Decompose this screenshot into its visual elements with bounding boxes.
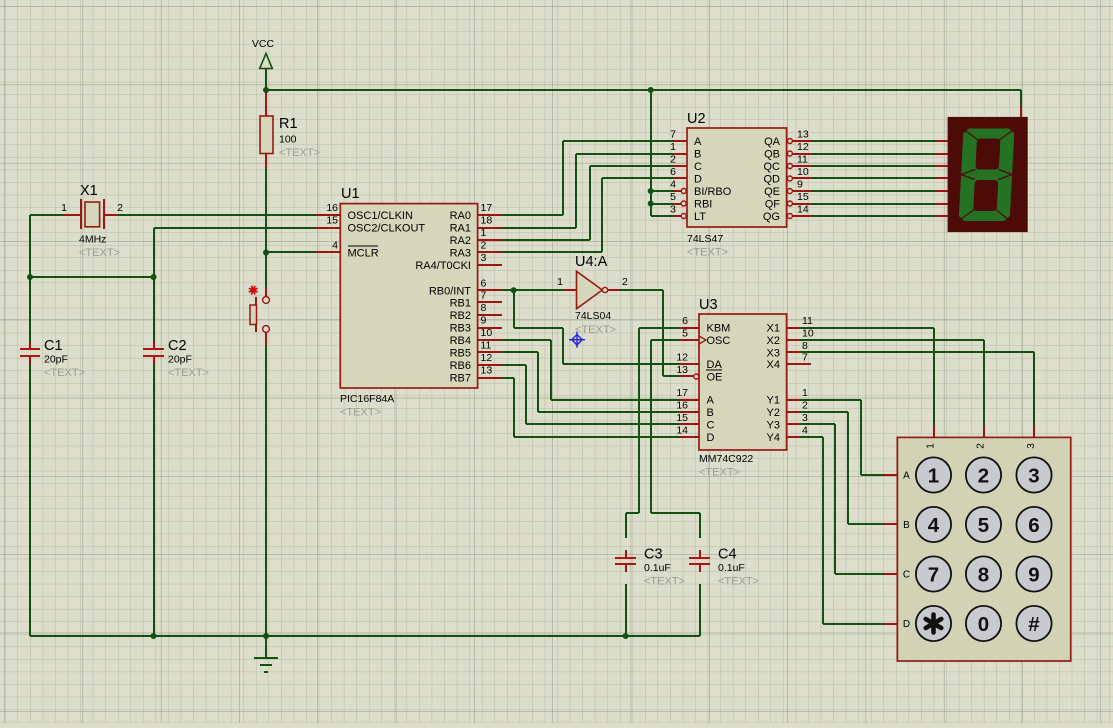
svg-text:5: 5: [670, 191, 676, 203]
svg-text:15: 15: [326, 215, 338, 227]
svg-text:6: 6: [670, 166, 676, 178]
svg-text:RB0/INT: RB0/INT: [429, 285, 471, 297]
svg-text:3: 3: [481, 252, 487, 264]
svg-text:1: 1: [802, 387, 808, 399]
svg-text:11: 11: [481, 340, 492, 352]
svg-text:18: 18: [481, 215, 493, 227]
svg-text:RBI: RBI: [694, 199, 712, 211]
svg-text:1: 1: [481, 227, 487, 239]
svg-text:7: 7: [802, 352, 808, 364]
svg-text:RB1: RB1: [450, 298, 471, 310]
svg-text:Y2: Y2: [767, 407, 780, 419]
svg-text:U3: U3: [699, 297, 718, 313]
svg-text:OSC2/CLKOUT: OSC2/CLKOUT: [348, 223, 426, 235]
svg-text:C1: C1: [44, 338, 63, 354]
svg-text:1: 1: [61, 202, 67, 214]
svg-text:2: 2: [802, 400, 808, 412]
svg-text:RA3: RA3: [450, 248, 471, 260]
svg-text:12: 12: [676, 352, 688, 364]
svg-text:QA: QA: [764, 136, 781, 148]
svg-text:<TEXT>: <TEXT>: [44, 367, 85, 379]
svg-text:C3: C3: [644, 547, 663, 563]
svg-text:8: 8: [802, 340, 808, 352]
svg-text:OSC: OSC: [707, 335, 731, 347]
svg-text:9: 9: [797, 179, 803, 191]
svg-text:3: 3: [802, 412, 808, 424]
svg-text:<TEXT>: <TEXT>: [687, 247, 728, 259]
svg-text:7: 7: [670, 129, 676, 141]
svg-text:2: 2: [481, 240, 487, 252]
svg-text:R1: R1: [279, 116, 298, 132]
svg-text:#: #: [1028, 613, 1040, 636]
svg-text:2: 2: [978, 465, 989, 488]
svg-text:20pF: 20pF: [44, 354, 68, 366]
svg-text:13: 13: [797, 129, 809, 141]
svg-text:A: A: [707, 395, 715, 407]
svg-text:<TEXT>: <TEXT>: [79, 247, 120, 259]
svg-text:OSC1/CLKIN: OSC1/CLKIN: [348, 210, 413, 222]
svg-text:RB5: RB5: [450, 348, 471, 360]
svg-text:4: 4: [928, 514, 940, 537]
svg-text:<TEXT>: <TEXT>: [699, 467, 740, 479]
svg-text:MM74C922: MM74C922: [699, 453, 753, 465]
svg-text:B: B: [903, 520, 910, 531]
svg-text:0.1uF: 0.1uF: [644, 562, 671, 574]
svg-text:14: 14: [676, 425, 688, 437]
svg-text:12: 12: [481, 352, 493, 364]
svg-text:DA: DA: [707, 359, 723, 371]
svg-text:10: 10: [802, 328, 814, 340]
svg-text:B: B: [694, 149, 701, 161]
svg-text:1: 1: [928, 465, 939, 488]
svg-text:7: 7: [481, 290, 487, 302]
svg-text:3: 3: [1028, 465, 1039, 488]
svg-text:LT: LT: [694, 211, 706, 223]
svg-text:C2: C2: [168, 338, 187, 354]
svg-text:11: 11: [797, 154, 808, 166]
svg-text:9: 9: [481, 315, 487, 327]
svg-text:X2: X2: [767, 335, 780, 347]
svg-text:<TEXT>: <TEXT>: [718, 576, 759, 588]
svg-text:RB6: RB6: [450, 360, 471, 372]
svg-text:4MHz: 4MHz: [79, 234, 106, 246]
svg-text:4: 4: [802, 425, 808, 437]
svg-text:20pF: 20pF: [168, 354, 192, 366]
svg-text:A: A: [694, 136, 702, 148]
svg-text:D: D: [694, 174, 702, 186]
svg-text:QB: QB: [764, 149, 780, 161]
svg-text:QD: QD: [764, 174, 781, 186]
svg-text:5: 5: [682, 328, 688, 340]
svg-text:6: 6: [682, 315, 688, 327]
svg-text:6: 6: [481, 277, 487, 289]
svg-text:X3: X3: [767, 348, 780, 360]
svg-text:D: D: [707, 432, 715, 444]
svg-text:74LS04: 74LS04: [575, 310, 611, 322]
svg-text:1: 1: [557, 276, 563, 288]
svg-text:10: 10: [481, 327, 493, 339]
svg-text:QG: QG: [763, 211, 780, 223]
svg-text:13: 13: [676, 364, 688, 376]
svg-text:U1: U1: [341, 186, 360, 202]
svg-text:C: C: [707, 420, 715, 432]
svg-text:QC: QC: [764, 161, 781, 173]
svg-text:C4: C4: [718, 547, 737, 563]
svg-text:X1: X1: [767, 323, 780, 335]
svg-text:X1: X1: [80, 183, 98, 199]
svg-text:X4: X4: [767, 359, 780, 371]
svg-text:PIC16F84A: PIC16F84A: [340, 393, 394, 405]
svg-text:9: 9: [1028, 564, 1039, 587]
svg-text:QF: QF: [765, 199, 781, 211]
svg-text:15: 15: [797, 191, 809, 203]
svg-text:<TEXT>: <TEXT>: [644, 576, 685, 588]
svg-text:4: 4: [332, 240, 338, 252]
svg-text:<TEXT>: <TEXT>: [168, 367, 209, 379]
svg-text:15: 15: [676, 412, 688, 424]
svg-text:RA4/T0CKI: RA4/T0CKI: [415, 260, 471, 272]
svg-text:2: 2: [670, 154, 676, 166]
svg-text:4: 4: [670, 179, 676, 191]
svg-text:1: 1: [670, 141, 676, 153]
svg-text:BI/RBO: BI/RBO: [694, 186, 732, 198]
svg-text:OE: OE: [707, 372, 723, 384]
svg-text:14: 14: [797, 204, 809, 216]
svg-text:RB7: RB7: [450, 373, 471, 385]
svg-text:16: 16: [676, 400, 688, 412]
svg-text:QE: QE: [764, 186, 780, 198]
svg-text:<TEXT>: <TEXT>: [575, 324, 616, 336]
svg-text:6: 6: [1028, 514, 1039, 537]
svg-text:17: 17: [481, 202, 493, 214]
svg-text:RB2: RB2: [450, 310, 471, 322]
svg-text:10: 10: [797, 166, 809, 178]
svg-text:MCLR: MCLR: [348, 248, 379, 260]
svg-text:Y1: Y1: [767, 395, 780, 407]
svg-text:U4:A: U4:A: [575, 254, 608, 270]
svg-text:D: D: [903, 619, 910, 630]
svg-text:2: 2: [622, 276, 628, 288]
svg-text:B: B: [707, 407, 714, 419]
svg-text:U2: U2: [687, 111, 706, 127]
svg-text:0: 0: [978, 613, 989, 636]
svg-text:A: A: [903, 471, 910, 482]
svg-text:0.1uF: 0.1uF: [718, 562, 745, 574]
svg-text:5: 5: [978, 514, 989, 537]
svg-text:<TEXT>: <TEXT>: [279, 147, 320, 159]
svg-text:7: 7: [928, 564, 939, 587]
svg-text:RA1: RA1: [450, 223, 471, 235]
svg-text:1: 1: [926, 443, 937, 449]
svg-text:8: 8: [978, 564, 989, 587]
svg-text:VCC: VCC: [252, 38, 275, 50]
svg-text:RA0: RA0: [450, 210, 471, 222]
svg-text:RB4: RB4: [450, 335, 471, 347]
svg-text:12: 12: [797, 141, 809, 153]
svg-text:3: 3: [1026, 443, 1037, 449]
svg-text:2: 2: [976, 443, 987, 449]
svg-text:RA2: RA2: [450, 235, 471, 247]
svg-text:2: 2: [117, 202, 123, 214]
svg-text:C: C: [903, 570, 910, 581]
svg-text:17: 17: [676, 387, 688, 399]
svg-text:KBM: KBM: [707, 323, 731, 335]
svg-text:Y4: Y4: [767, 432, 780, 444]
svg-text:C: C: [694, 161, 702, 173]
svg-text:100: 100: [279, 134, 297, 146]
svg-text:11: 11: [802, 315, 813, 327]
svg-text:74LS47: 74LS47: [687, 233, 723, 245]
svg-text:<TEXT>: <TEXT>: [340, 407, 381, 419]
svg-text:8: 8: [481, 302, 487, 314]
svg-text:16: 16: [326, 202, 338, 214]
svg-text:3: 3: [670, 204, 676, 216]
svg-text:13: 13: [481, 365, 493, 377]
svg-text:RB3: RB3: [450, 323, 471, 335]
svg-text:Y3: Y3: [767, 420, 780, 432]
